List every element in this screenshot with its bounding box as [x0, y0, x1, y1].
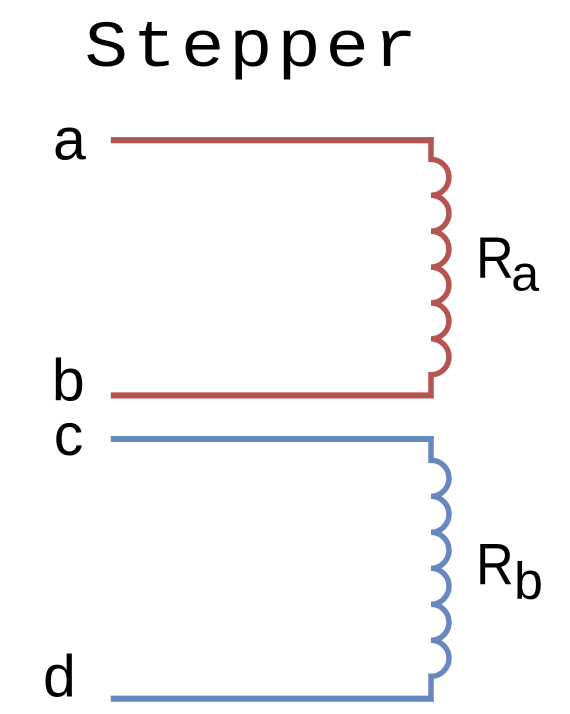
svg-text:R: R	[476, 225, 514, 290]
svg-text:a: a	[511, 245, 539, 301]
inductor Ra	[431, 137, 449, 398]
wire c to Rb top	[111, 436, 434, 442]
svg-text:Stepper: Stepper	[85, 11, 422, 86]
svg-text:R: R	[476, 532, 514, 597]
svg-text:d: d	[43, 643, 76, 709]
wire Rb bottom to d	[111, 696, 434, 702]
svg-text:b: b	[514, 552, 543, 610]
svg-text:c: c	[54, 402, 83, 468]
wire a to Ra top	[111, 137, 434, 143]
inductor Rb	[431, 436, 449, 701]
wire Ra bottom to b	[111, 392, 434, 398]
svg-text:a: a	[53, 107, 86, 173]
